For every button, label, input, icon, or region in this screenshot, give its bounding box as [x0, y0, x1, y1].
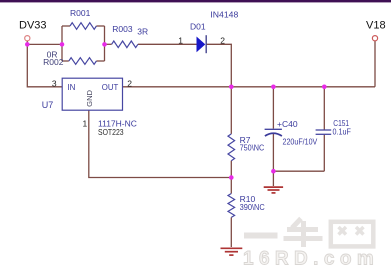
- svg-text:750\NC: 750\NC: [240, 143, 265, 153]
- svg-text:DV33: DV33: [19, 20, 47, 32]
- op-amp regulator U7: [42, 78, 137, 137]
- resistor R7: [228, 134, 264, 161]
- wire V18 rail: [123, 86, 376, 88]
- svg-text:16RD.com: 16RD.com: [243, 249, 379, 269]
- svg-text:3R: 3R: [137, 27, 148, 37]
- junction node R7/R10/GND: [229, 175, 234, 180]
- watermark 一: [244, 233, 278, 239]
- junction node loop right: [102, 42, 107, 47]
- svg-text:+C40: +C40: [277, 119, 298, 129]
- junction node rail/C40: [271, 85, 276, 90]
- wire DV33 stub down to U7 IN row: [27, 41, 62, 87]
- capacitor C151: [316, 118, 351, 136]
- port DV33: [19, 20, 47, 41]
- junction node rail/C151: [322, 85, 327, 90]
- wire U7 GND pin down and right to R7/R10 junction: [89, 110, 232, 177]
- wire DV33 to parallel resistors: [27, 43, 62, 45]
- svg-text:R003: R003: [112, 24, 133, 34]
- resistor R003: [112, 24, 149, 48]
- resistor R10: [228, 194, 265, 218]
- pin 3 label: [52, 78, 57, 88]
- svg-text:IN4148: IN4148: [210, 9, 238, 19]
- resistor R001: [70, 8, 96, 29]
- top frame border: [0, 0, 391, 2]
- junction node C40/C151 ground: [271, 169, 276, 174]
- wire diode to V18 rail: [207, 44, 232, 87]
- svg-text:3: 3: [52, 78, 57, 88]
- svg-text:IN: IN: [67, 83, 75, 92]
- svg-text:0.1uF: 0.1uF: [333, 126, 351, 136]
- resistor R002: [43, 50, 96, 67]
- svg-text:SOT223: SOT223: [98, 127, 124, 137]
- diode D01: [178, 9, 238, 53]
- wire C151 bottom down: [323, 135, 325, 172]
- svg-text:2: 2: [127, 78, 132, 88]
- wire R10 to ground: [230, 217, 232, 247]
- pin 2 label: [127, 78, 132, 88]
- svg-text:220uF/10V: 220uF/10V: [283, 136, 318, 146]
- svg-text:1: 1: [178, 35, 183, 45]
- capacitor C40: [265, 119, 318, 146]
- wire C40 bottom to ground: [272, 134, 274, 186]
- junction node rail/diode branch: [229, 85, 234, 90]
- watermark 16RD.com: [243, 249, 379, 269]
- svg-text:R002: R002: [43, 57, 64, 67]
- port V18: [366, 20, 386, 41]
- ground below C40: [264, 187, 283, 193]
- wire rail down to C40: [272, 87, 274, 129]
- wire C40/C151 ground link: [273, 170, 324, 172]
- svg-text:390\NC: 390\NC: [240, 202, 265, 212]
- svg-text:1: 1: [83, 119, 88, 129]
- junction node at DV33: [25, 42, 30, 47]
- svg-text:U7: U7: [42, 100, 54, 110]
- pin 1 label: [83, 119, 88, 129]
- svg-text:OUT: OUT: [102, 83, 119, 92]
- svg-text:D01: D01: [190, 21, 206, 31]
- watermark 网: [331, 222, 374, 247]
- wire rail down to C151: [323, 87, 325, 130]
- junction node loop left: [60, 42, 65, 47]
- watermark 牛: [284, 219, 323, 248]
- wire rail down to R7: [230, 87, 232, 134]
- wire rail up to V18 port: [374, 41, 376, 87]
- svg-text:R001: R001: [70, 8, 91, 18]
- svg-text:2: 2: [220, 35, 225, 45]
- ground below R10: [221, 248, 243, 255]
- wire R7 to R10 through junction: [230, 161, 232, 194]
- wire parallel loop frame: [62, 26, 105, 61]
- svg-text:V18: V18: [366, 20, 386, 32]
- svg-text:GND: GND: [85, 89, 94, 106]
- wire R003 to diode D01: [138, 43, 197, 45]
- wire loop to R003: [105, 43, 112, 45]
